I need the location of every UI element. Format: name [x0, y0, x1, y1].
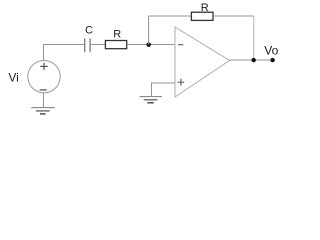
svg-text:Vo: Vo [264, 43, 278, 57]
op-amp U1 [175, 27, 230, 97]
capacitor C [85, 39, 90, 53]
source plus mark [40, 63, 47, 70]
node junction dot output/feedback [252, 58, 256, 62]
wire source bottom to ground [43, 93, 45, 108]
wire non-inverting input [152, 83, 176, 96]
wire feedback top left [149, 15, 192, 17]
node terminal dot Vo [270, 58, 274, 62]
wire resistor to op-amp [127, 44, 175, 46]
wire capacitor to resistor [91, 44, 106, 46]
wire output [230, 59, 273, 61]
ground (source) [31, 108, 54, 114]
resistor R feedback [191, 12, 213, 20]
wire feedback top right [213, 15, 254, 17]
svg-text:Vi: Vi [8, 71, 18, 85]
source minus mark [40, 89, 47, 91]
svg-text:R: R [201, 2, 209, 14]
svg-text:C: C [85, 24, 93, 36]
svg-text:R: R [113, 28, 121, 40]
node junction dot inverting input [147, 43, 151, 47]
op-amp plus pin mark [178, 79, 185, 86]
ground (op-amp input) [140, 97, 163, 103]
resistor R series [105, 41, 126, 49]
source Vi [28, 60, 60, 92]
wire source top to node [44, 45, 85, 61]
wire feedback down [253, 16, 255, 60]
wire feedback up [148, 16, 150, 45]
op-amp minus pin mark [178, 44, 183, 46]
